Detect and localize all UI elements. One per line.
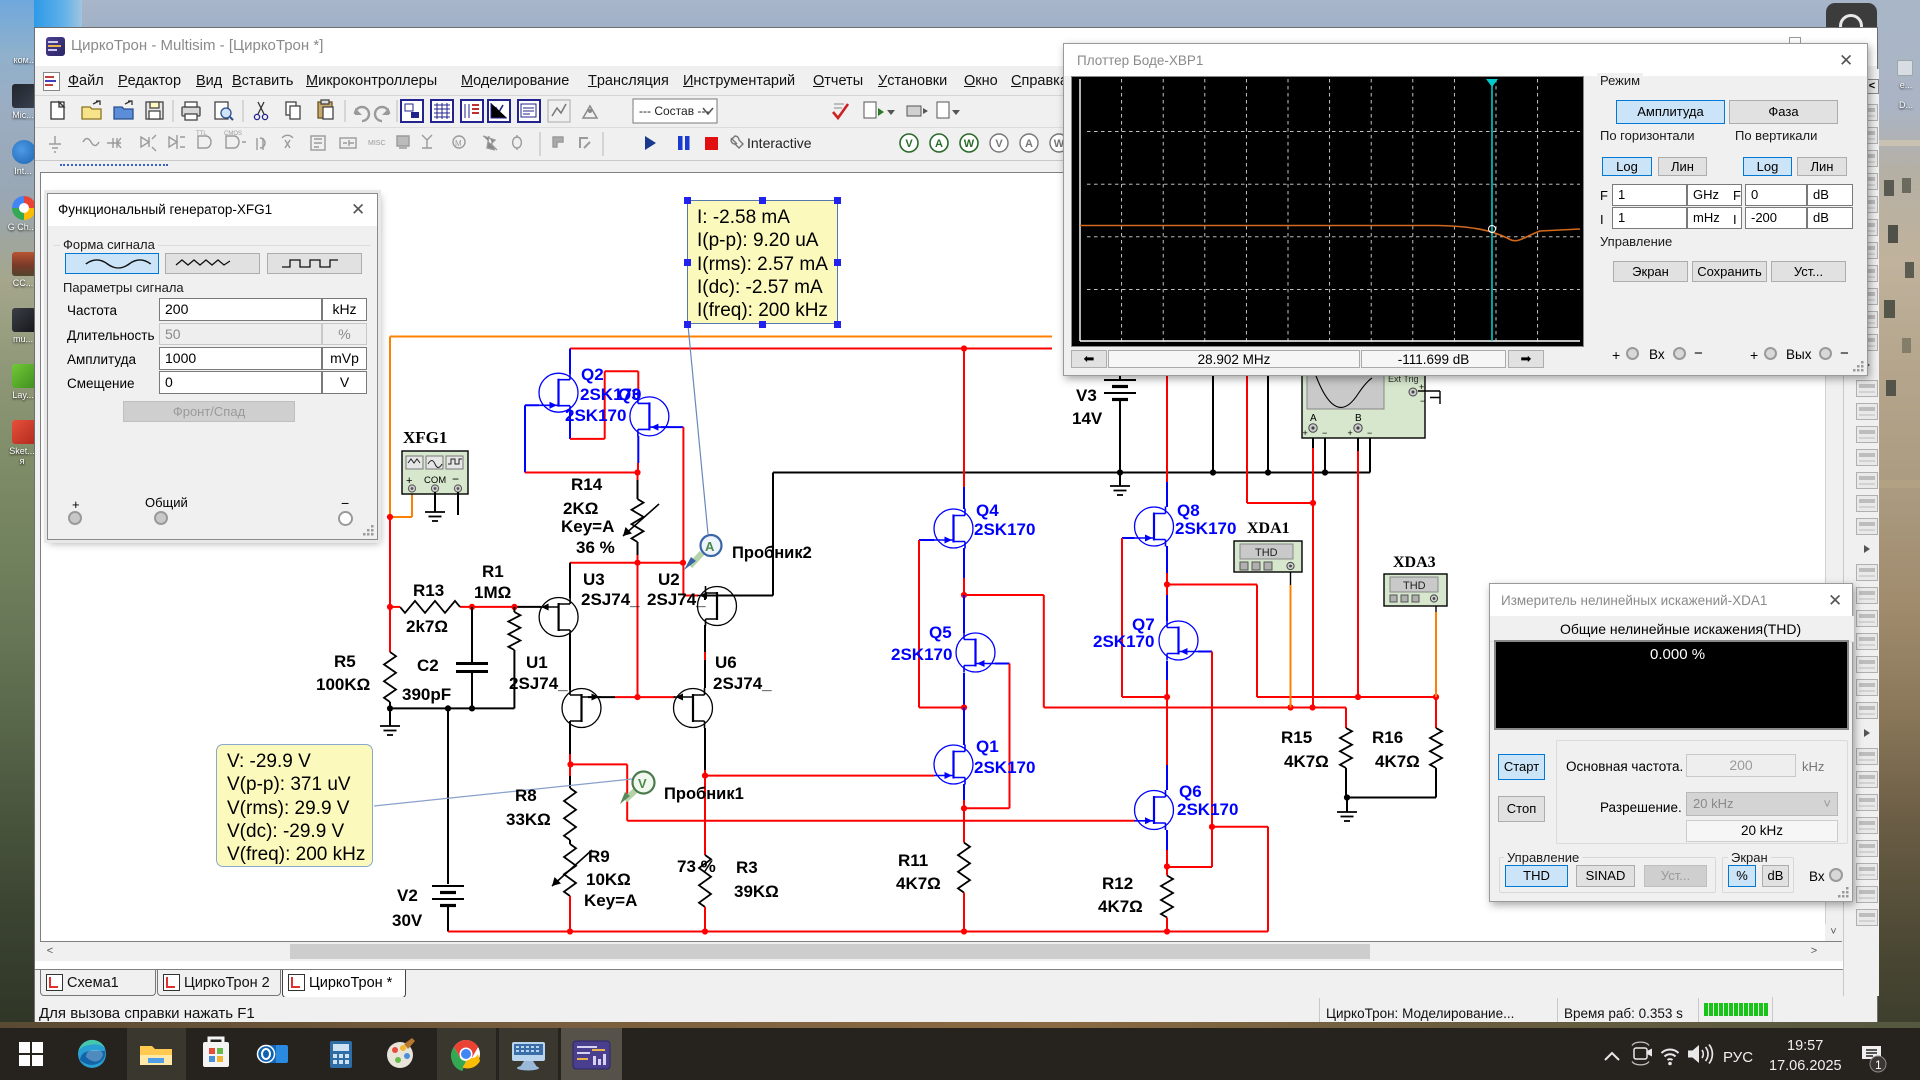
- horizontal scrollbar: [40, 942, 1842, 961]
- open: [82, 107, 101, 119]
- right-edge desktop icon labels: [1897, 60, 1913, 76]
- svg-text:R3: R3: [736, 858, 758, 877]
- svg-text:V: V: [638, 776, 647, 791]
- svg-text:Q8: Q8: [1177, 501, 1200, 520]
- svg-text:30V: 30V: [392, 911, 423, 930]
- instrument XDA3 distortion analyzer symbol: [1384, 574, 1447, 606]
- node: XDA3 wire on line A: [1433, 694, 1439, 700]
- keyboard app (active): [499, 1028, 558, 1080]
- node: XFG+ / left bus junction: [387, 514, 393, 520]
- wire: R13 left lead: [390, 606, 400, 608]
- wire: probe1 leader line: [374, 779, 632, 806]
- after-combo icons: [833, 104, 848, 118]
- node: Q8/Q7 node: [1164, 581, 1170, 587]
- wire: Q2 source to Q3 drain loop: [570, 371, 638, 439]
- title bar: [35, 28, 1877, 66]
- svg-text:2SK170: 2SK170: [1093, 632, 1154, 651]
- svg-text:A: A: [935, 138, 943, 150]
- node: Q6 source node: [1164, 863, 1170, 869]
- status bar: [35, 997, 1877, 1023]
- node: V3 on ground bus: [1117, 469, 1123, 475]
- node: R1 top junction: [511, 604, 517, 610]
- menu bar: [35, 66, 1877, 96]
- svg-text:W: W: [964, 138, 975, 150]
- svg-text:2SJ74_: 2SJ74_: [647, 590, 706, 609]
- svg-text:U3: U3: [583, 570, 605, 589]
- svg-text:2KΩ: 2KΩ: [563, 499, 598, 518]
- instrument probe circles: [900, 134, 1068, 152]
- wire: XDA1 orange probe: [1290, 570, 1292, 708]
- wire: red from dialog to A wire: [1247, 373, 1313, 503]
- svg-text:V: V: [905, 138, 913, 150]
- wire: U3 drain rail y563: [570, 563, 683, 598]
- svg-text:U6: U6: [715, 653, 737, 672]
- wire: Q6 drain: [1166, 697, 1168, 790]
- svg-text:MISC: MISC: [368, 140, 386, 147]
- svg-text:1MΩ: 1MΩ: [474, 583, 511, 602]
- ground: under R5: [380, 708, 400, 735]
- print: [182, 107, 200, 116]
- chrome (active): [437, 1028, 496, 1080]
- wire: Q7 source: [1166, 661, 1168, 697]
- node: R15/R16 ground node: [1344, 794, 1350, 800]
- svg-text:Q2: Q2: [581, 365, 604, 384]
- wire: Q2 gate loop to R14 top node: [525, 405, 638, 472]
- node: Q4/Q5 node: [961, 592, 967, 598]
- wire: scope channel stubs to ground bus: [1213, 373, 1325, 473]
- wire: XDA3 orange probe: [1435, 602, 1437, 697]
- wire: Q6 source: [1166, 830, 1168, 867]
- wire: XFG COM to ground: [434, 492, 436, 512]
- canvas sheet dashed corner: [60, 164, 168, 166]
- node: XDA1 wire on line B: [1287, 704, 1293, 710]
- wire: Q8 drain column: [1166, 373, 1168, 507]
- new: [51, 102, 64, 119]
- top-right desktop icon (dark rounded): [1826, 3, 1877, 27]
- wire: V3 leads: [1119, 373, 1121, 473]
- svg-text:−: −: [1322, 428, 1327, 438]
- start: [19, 1042, 43, 1066]
- resistor R8 33K: [564, 788, 576, 840]
- sheet border dashed: [59, 164, 167, 166]
- node: rail697/R14col: [634, 694, 640, 700]
- wire: scope A probe wire: [1312, 433, 1314, 708]
- wire: feedback to Q6 gate rail y821: [570, 764, 1135, 820]
- svg-text:19:57: 19:57: [1787, 1038, 1823, 1054]
- resistor R13 2k7: [400, 601, 460, 613]
- right instrument toolbar: [1843, 69, 1879, 996]
- cut: [258, 102, 264, 114]
- node: R12 bottom on bus: [1164, 928, 1170, 934]
- svg-text:2SK170: 2SK170: [891, 645, 952, 664]
- ground: under R15: [1337, 798, 1357, 822]
- calculator: [330, 1041, 352, 1068]
- wire: XFG minus stub: [457, 492, 459, 515]
- svg-text:2SK170: 2SK170: [1177, 800, 1238, 819]
- black screen: [1071, 76, 1584, 347]
- svg-text:2k7Ω: 2k7Ω: [406, 617, 448, 636]
- battery V3 14V: [1104, 380, 1136, 400]
- wire: R3 top lead: [704, 776, 706, 855]
- svg-text:R11: R11: [898, 851, 928, 870]
- wire: Q4 source to node: [963, 548, 965, 595]
- node: bus junctions: [1210, 469, 1216, 475]
- transistor Q6 2SK170: [1135, 790, 1174, 830]
- wire: black ground bus y472: [773, 438, 1370, 473]
- svg-text:Key=A: Key=A: [584, 891, 637, 910]
- transistor Q5 2SK170: [956, 633, 995, 673]
- svg-text:Q3: Q3: [618, 385, 641, 404]
- resistor R3 39K: [699, 855, 711, 932]
- top-left bright sky patch: [34, 0, 82, 27]
- multisim (active focused): [561, 1028, 622, 1080]
- svg-text:CMOS: CMOS: [224, 131, 242, 137]
- transistor Q8 2SK170: [1135, 507, 1174, 547]
- ground: under XFG1: [425, 512, 445, 521]
- svg-text:V: V: [995, 138, 1003, 150]
- wire: gate rail y607 from R13 to U3: [460, 606, 541, 608]
- svg-text:2SJ74_: 2SJ74_: [509, 674, 568, 693]
- wire: red top rail to V3: [570, 348, 1052, 350]
- right strip building windows: [1884, 180, 1894, 196]
- edge: [78, 1040, 106, 1068]
- svg-text:4K7Ω: 4K7Ω: [1375, 752, 1420, 771]
- resistor R14 (potentiometer 2K): [623, 499, 659, 542]
- resistor R5 100K: [384, 652, 396, 708]
- svg-text:14V: 14V: [1072, 409, 1103, 428]
- combo box: [633, 99, 717, 123]
- svg-text:17.06.2025: 17.06.2025: [1769, 1058, 1842, 1074]
- wire: Q5 drain: [963, 595, 965, 633]
- right wallpaper strip detail: [1878, 0, 1920, 1080]
- wire: Q1 drain: [963, 708, 965, 746]
- wire: Q1 source: [963, 784, 965, 808]
- svg-text:390pF: 390pF: [402, 685, 451, 704]
- svg-text:4K7Ω: 4K7Ω: [1284, 752, 1329, 771]
- svg-text:Пробник1: Пробник1: [664, 785, 744, 803]
- wire: left red bus down to R13/R5: [389, 517, 391, 652]
- transistor U3 2SJ74: [539, 597, 578, 637]
- toolbar row 2: [35, 128, 1877, 161]
- tray: [1605, 1053, 1619, 1060]
- wire: R11 top lead: [963, 808, 965, 842]
- svg-text:A: A: [1310, 413, 1317, 424]
- wire: Q8 source to node: [1166, 546, 1168, 595]
- outlook: [264, 1045, 288, 1063]
- svg-text:XDA1: XDA1: [1247, 520, 1290, 537]
- svg-text:U1: U1: [526, 653, 548, 672]
- svg-text:2SK170: 2SK170: [974, 758, 1035, 777]
- resistor R12 4K7: [1161, 876, 1173, 932]
- node: probe1 node: [702, 773, 708, 779]
- transistor Q4 2SK170: [934, 509, 973, 549]
- svg-text:+: +: [1303, 428, 1308, 438]
- node: R3 bottom on bus: [702, 928, 708, 934]
- svg-text:1: 1: [1875, 1058, 1882, 1072]
- svg-text:R15: R15: [1281, 728, 1312, 747]
- wire: scope B probe wire: [1357, 433, 1359, 697]
- node: A wire junction: [1310, 500, 1316, 506]
- preview: [215, 102, 228, 119]
- svg-text:2SJ74_: 2SJ74_: [581, 590, 640, 609]
- svg-text:Пробник2: Пробник2: [732, 544, 812, 562]
- node: V-probe junction: [567, 761, 573, 767]
- left wallpaper strip detail: [0, 0, 42, 1080]
- svg-text:Key=A: Key=A: [561, 517, 614, 536]
- vertical scrollbar: [1825, 173, 1842, 941]
- transistor U2 2SJ74: [698, 586, 737, 626]
- svg-text:4K7Ω: 4K7Ω: [1098, 897, 1143, 916]
- svg-text:РУС: РУС: [1723, 1049, 1753, 1066]
- svg-text:U2: U2: [658, 570, 680, 589]
- wire: line B to R15: [964, 595, 1346, 728]
- wire: U1 source to R8: [569, 721, 571, 788]
- probe Пробник1 (voltage): [620, 772, 655, 805]
- svg-text:R9: R9: [588, 847, 610, 866]
- copy: [286, 102, 296, 115]
- node: Q7 source node: [1164, 694, 1170, 700]
- wire: ext trig stubs: [1418, 391, 1440, 404]
- node: Q5/Q1 node: [961, 704, 967, 710]
- svg-text:TTL: TTL: [196, 131, 207, 137]
- capacitor C2 390pF: [456, 607, 488, 709]
- wire: Q4 gate loop: [919, 540, 964, 708]
- node: rail563/probe point: [680, 560, 686, 566]
- svg-text:2SK170: 2SK170: [565, 406, 626, 425]
- node: top rail / Q4 column: [961, 345, 967, 351]
- svg-text:C2: C2: [417, 656, 439, 675]
- svg-text:2SJ74_: 2SJ74_: [713, 674, 772, 693]
- svg-text:−: −: [1420, 396, 1425, 406]
- right panel: [1597, 73, 1643, 88]
- svg-text:A: A: [1025, 138, 1033, 150]
- wire: rail y776 to Q1 gate: [705, 775, 934, 777]
- wire: Q5 source: [963, 673, 965, 708]
- svg-text:R16: R16: [1372, 728, 1403, 747]
- svg-text:Q5: Q5: [929, 623, 952, 642]
- svg-text:2SK170: 2SK170: [1175, 519, 1236, 538]
- svg-text:V2: V2: [397, 886, 418, 905]
- svg-text:R1: R1: [482, 562, 504, 581]
- wire: red bottom bus: [448, 827, 1268, 932]
- wire: black bus y708: [390, 707, 514, 709]
- svg-text:R5: R5: [334, 652, 356, 671]
- svg-text:39KΩ: 39KΩ: [734, 882, 779, 901]
- transistor Q1 2SK170: [934, 745, 973, 785]
- node: C2 top junction: [469, 604, 475, 610]
- wire: Q3 gate down to U2 gate: [661, 427, 698, 595]
- svg-text:XDA3: XDA3: [1393, 554, 1436, 571]
- left desktop icons column: [8, 55, 42, 65]
- node: C2 bottom: [469, 705, 475, 711]
- svg-text:R14: R14: [571, 475, 603, 494]
- node: R13 left junction: [387, 604, 393, 610]
- svg-text:R8: R8: [515, 786, 537, 805]
- node: loop junction at 1212: [1209, 824, 1215, 830]
- node: B wire on line A: [1355, 694, 1361, 700]
- undo/redo: [355, 107, 369, 121]
- transistor U1 2SJ74: [562, 688, 601, 728]
- node: V2 top: [445, 705, 451, 711]
- svg-text:2SK170: 2SK170: [974, 520, 1035, 539]
- svg-text:R13: R13: [413, 581, 444, 600]
- svg-text:THD: THD: [1255, 547, 1278, 559]
- canvas: [40, 172, 1842, 942]
- svg-text:Q6: Q6: [1179, 782, 1202, 801]
- open2: [114, 107, 133, 119]
- wire: probe2 leader line: [688, 325, 708, 534]
- svg-text:−: −: [452, 472, 459, 486]
- paste: [318, 102, 332, 118]
- wire: U3 source to U1 drain: [569, 634, 571, 690]
- node: Q1 source node: [961, 805, 967, 811]
- svg-text:R12: R12: [1102, 874, 1133, 893]
- wire: U2 drain from ground bus: [705, 473, 773, 601]
- store: [203, 1042, 229, 1067]
- bottom readout row: [1071, 350, 1107, 368]
- battery V2 30V: [432, 708, 464, 931]
- window control stubs peeking above dialog: [1789, 37, 1801, 45]
- wire: R12 top lead: [1166, 867, 1168, 876]
- svg-text:−: −: [1367, 428, 1372, 438]
- explorer (active): [127, 1028, 186, 1080]
- svg-text:Interactive: Interactive: [747, 135, 812, 151]
- wire: Q8 gate loop: [1122, 538, 1167, 697]
- instrument XSC oscilloscope symbol: [1302, 371, 1425, 438]
- wire: line A to R16: [1167, 585, 1436, 729]
- svg-text:THD: THD: [1403, 580, 1426, 592]
- node: rail563/R14col: [634, 560, 640, 566]
- node: R14 top junction: [634, 469, 640, 475]
- svg-text:+: +: [1348, 428, 1353, 438]
- svg-text:COM: COM: [424, 475, 446, 486]
- probe Пробник2 (current): [684, 535, 722, 570]
- node: R5 bottom: [387, 705, 393, 711]
- wire: Q7 gate loop: [1167, 652, 1212, 868]
- wire: R14 leads: [637, 473, 639, 698]
- wire: U1 gate rail y697: [588, 696, 675, 698]
- svg-text:73 %: 73 %: [677, 857, 716, 876]
- resistor R9 (potentiometer 10K): [552, 840, 592, 932]
- wire: Q3 source to R14 node: [637, 436, 639, 473]
- svg-text:A: A: [705, 539, 715, 554]
- transistor U6 2SJ74: [674, 688, 713, 728]
- wire: U2 source / U6 column: [704, 625, 706, 776]
- resistor R11 4K7: [958, 843, 970, 932]
- wire: Q7 drain: [1166, 595, 1168, 621]
- ground: under V3: [1110, 473, 1130, 496]
- resistor R1 1M: [508, 607, 520, 709]
- svg-text:V3: V3: [1076, 386, 1097, 405]
- instrument XFG1 function generator symbol: [402, 451, 468, 494]
- save: [146, 102, 163, 119]
- toolbar row 1: [35, 96, 1877, 127]
- tab bar: [35, 961, 1877, 969]
- run / pause / stop: [645, 136, 656, 150]
- transistor Q7 2SK170: [1159, 621, 1198, 661]
- svg-text:36 %: 36 %: [576, 538, 615, 557]
- svg-text:--- Состав ---: --- Состав ---: [639, 104, 709, 118]
- svg-text:100KΩ: 100KΩ: [316, 675, 370, 694]
- svg-text:33KΩ: 33KΩ: [506, 810, 551, 829]
- svg-text:XFG1: XFG1: [403, 428, 447, 447]
- node: R9 bottom on bus: [567, 928, 573, 934]
- node: A wire on line B: [1309, 704, 1315, 710]
- wire: Q2 drain stub: [569, 349, 571, 374]
- wire: Q4 drain column: [963, 349, 965, 510]
- svg-text:Q1: Q1: [976, 737, 999, 756]
- paint: [387, 1042, 413, 1068]
- node: R11 bottom on bus: [961, 928, 967, 934]
- svg-text:B: B: [1355, 413, 1362, 424]
- svg-text:Q4: Q4: [976, 501, 999, 520]
- wire: Q5 gate loop: [964, 664, 1010, 809]
- instrument XDA1 distortion analyzer symbol: [1234, 541, 1302, 572]
- resistor R15 4K7: [1340, 728, 1352, 798]
- svg-text:10KΩ: 10KΩ: [586, 870, 631, 889]
- transistor Q2 2SK170: [539, 373, 578, 413]
- resistor R16 4K7: [1347, 728, 1442, 798]
- transistor Q3 2SK170: [630, 396, 669, 436]
- svg-text:4K7Ω: 4K7Ω: [896, 874, 941, 893]
- svg-text:M: M: [455, 139, 462, 148]
- wire: orange top bus: [390, 337, 1052, 518]
